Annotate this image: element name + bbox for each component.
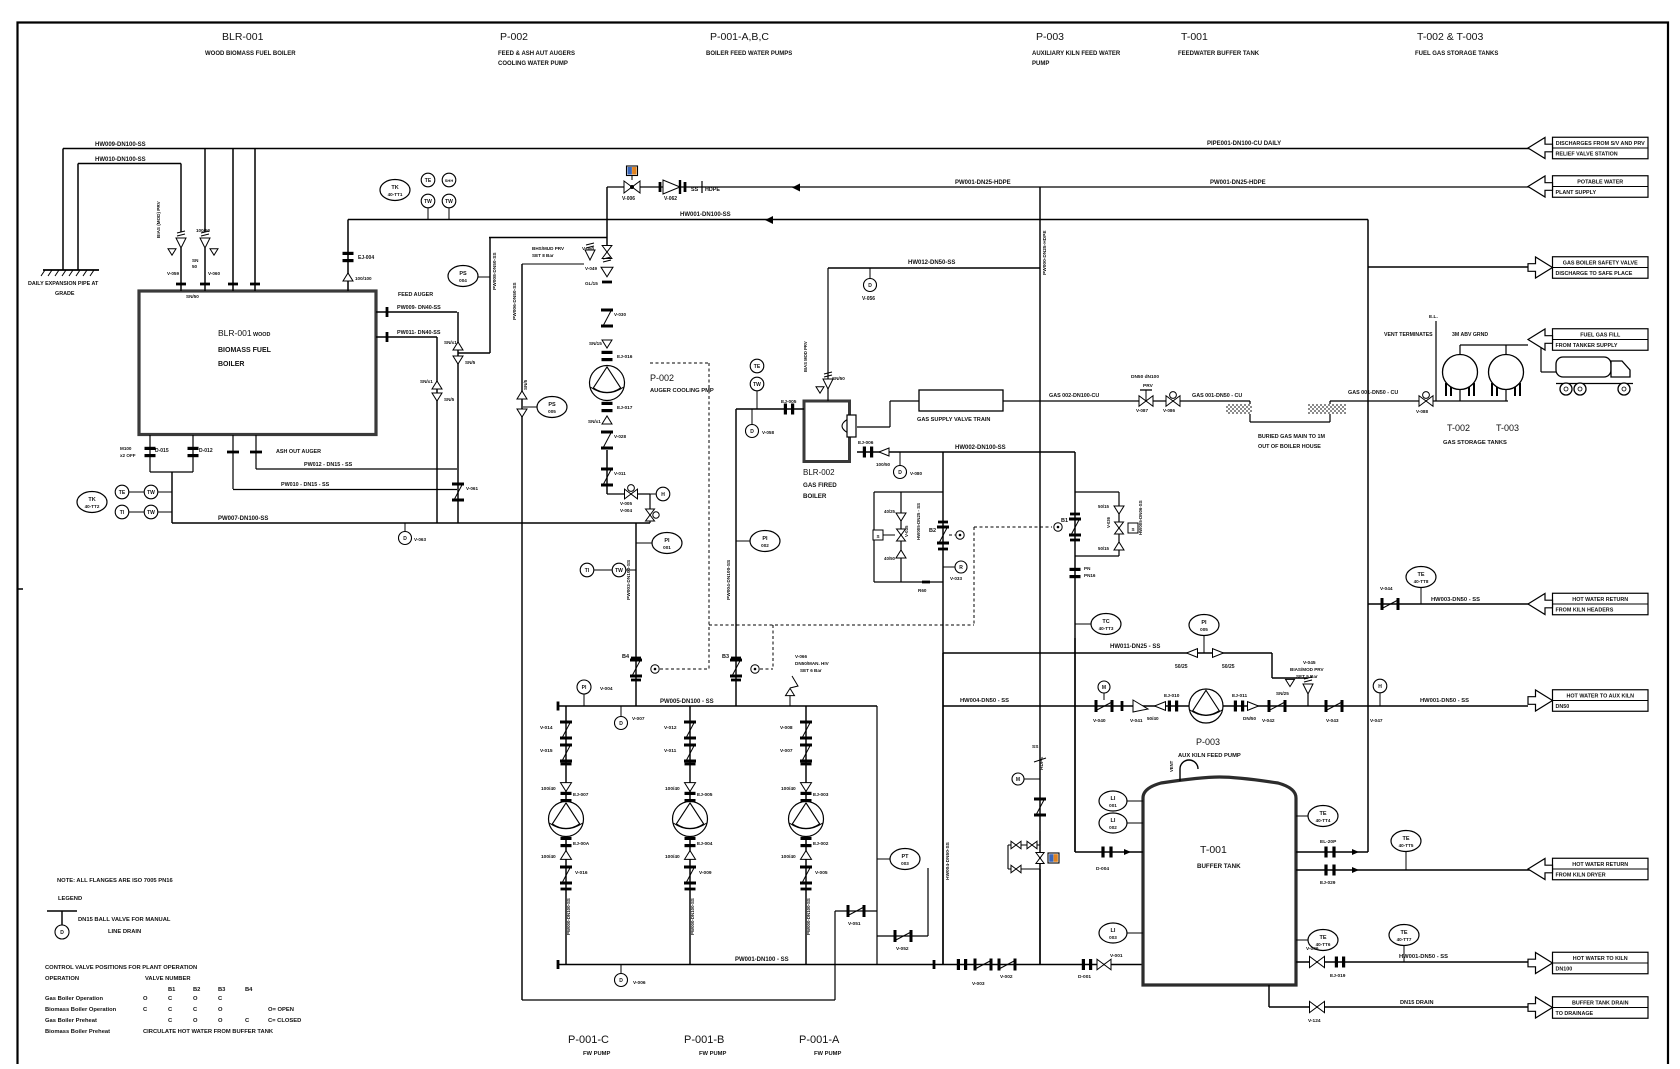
svg-text:BHS/MUD PRV: BHS/MUD PRV (532, 246, 565, 251)
svg-text:NOTE: ALL FLANGES ARE ISO 7005: NOTE: ALL FLANGES ARE ISO 7005 PN16 (57, 878, 174, 884)
svg-text:V-051: V-051 (848, 921, 861, 927)
svg-text:005: 005 (1200, 627, 1208, 632)
svg-text:V-058: V-058 (762, 430, 774, 435)
svg-text:PS: PS (459, 271, 467, 277)
svg-text:EJ-011: EJ-011 (1232, 693, 1248, 699)
svg-text:V-005: V-005 (620, 501, 632, 506)
instrument M V-040 (1098, 681, 1110, 693)
svg-text:003: 003 (901, 861, 909, 866)
wire tank outlets (1459, 390, 1461, 402)
valve V-044 (1381, 598, 1384, 610)
svg-text:001: 001 (1109, 803, 1117, 808)
svg-text:100/100: 100/100 (355, 276, 372, 281)
svg-text:HW005-DN25 - SS: HW005-DN25 - SS (916, 503, 921, 540)
svg-text:50/25: 50/25 (1222, 664, 1235, 670)
valve V-011 (601, 468, 613, 471)
svg-text:B4: B4 (622, 654, 630, 660)
svg-text:EJ-00A: EJ-00A (573, 841, 590, 847)
svg-text:AUGER COOLING PMP: AUGER COOLING PMP (650, 388, 714, 394)
svg-text:E.L.: E.L. (1429, 314, 1438, 320)
svg-text:O: O (218, 1018, 223, 1024)
svg-text:HW001-DN100-SS: HW001-DN100-SS (680, 212, 731, 218)
svg-text:V-006: V-006 (633, 980, 646, 986)
pipe PW001 HDPE drop (1039, 187, 1041, 964)
svg-text:POTABLE WATER: POTABLE WATER (1577, 180, 1623, 186)
interlock dot (651, 665, 659, 673)
svg-text:SET 8 Bar: SET 8 Bar (532, 253, 554, 258)
check valve V-062 (663, 180, 680, 194)
svg-text:OPERATION: OPERATION (45, 976, 79, 982)
valve V-042 (1268, 700, 1271, 712)
svg-text:FEED & ASH AUT AUGERS: FEED & ASH AUT AUGERS (498, 51, 575, 57)
svg-text:TE: TE (119, 490, 126, 496)
svg-text:40-TT3: 40-TT3 (1099, 626, 1114, 631)
svg-text:TW: TW (147, 510, 155, 516)
drain circle V-007 (620, 706, 622, 716)
instrument PS 005 (537, 397, 567, 418)
svg-text:P-001-C: P-001-C (568, 1034, 609, 1046)
svg-text:V-042: V-042 (1262, 718, 1275, 724)
instrument PI 001 (652, 533, 682, 554)
svg-text:D: D (619, 978, 623, 984)
svg-text:100/40: 100/40 (541, 786, 556, 792)
svg-text:V-086: V-086 (1163, 408, 1175, 413)
valve B5 on riser (452, 483, 464, 486)
svg-text:100/40: 100/40 (665, 786, 680, 792)
svg-text:100/50: 100/50 (876, 462, 890, 467)
svg-text:EJ-016: EJ-016 (617, 354, 633, 360)
reducers 50/25 (1187, 649, 1198, 658)
svg-text:SHH: SHH (445, 178, 454, 183)
svg-text:TE: TE (754, 364, 761, 370)
svg-text:TW: TW (753, 382, 761, 388)
burner flame (842, 419, 850, 433)
svg-text:V-035: V-035 (904, 525, 909, 537)
pump column P-001-A (805, 706, 807, 965)
flag hot water to kiln (1553, 952, 1649, 974)
svg-text:PW000-DN100-SS: PW000-DN100-SS (806, 898, 811, 935)
svg-text:FUEL GAS FILL: FUEL GAS FILL (1580, 333, 1621, 339)
left relief loop (942, 452, 944, 965)
valve V-050 (602, 246, 612, 259)
svg-text:V-061: V-061 (466, 486, 478, 491)
svg-text:TE: TE (1402, 836, 1409, 842)
svg-text:SN/5: SN/5 (444, 397, 455, 402)
pipe safety valve discharge left (828, 267, 1040, 269)
pipe PW007-DN100-SS boiler return (172, 522, 650, 524)
pipe PW001-DN25-HDPE potable water (607, 186, 1532, 188)
svg-text:BIOMASS FUEL: BIOMASS FUEL (218, 347, 272, 354)
svg-text:D-012: D-012 (199, 448, 213, 454)
svg-text:P-003: P-003 (1036, 31, 1064, 43)
valve B2 (938, 521, 948, 524)
svg-text:EJ-007: EJ-007 (573, 792, 589, 798)
svg-text:V-124: V-124 (1308, 1018, 1321, 1024)
svg-text:GAS SUPPLY VALVE TRAIN: GAS SUPPLY VALVE TRAIN (917, 417, 990, 423)
svg-text:HOT WATER RETURN: HOT WATER RETURN (1572, 862, 1628, 868)
svg-text:V-007: V-007 (780, 748, 793, 754)
svg-text:V-006: V-006 (622, 196, 635, 202)
svg-text:TE: TE (1319, 935, 1326, 941)
svg-text:V-052: V-052 (896, 946, 909, 952)
tee R60 (922, 581, 930, 584)
svg-text:GAS 002-DN100-CU: GAS 002-DN100-CU (1049, 393, 1099, 399)
pipe main feed to tank valves (933, 960, 936, 969)
svg-text:V-047: V-047 (1370, 718, 1383, 724)
control valve V-035 with solenoid (897, 529, 906, 541)
svg-text:BIAS MOD PRV: BIAS MOD PRV (803, 341, 808, 372)
valve B3 (731, 657, 741, 660)
pipe HW009-DN100-SS top header (63, 148, 1532, 150)
valve V-046 (1310, 956, 1325, 967)
svg-text:PW004-DN100-SS: PW004-DN100-SS (726, 559, 732, 600)
svg-text:BLR-001: BLR-001 (222, 31, 264, 43)
svg-text:DN15 BALL VALVE FOR MANUAL: DN15 BALL VALVE FOR MANUAL (78, 917, 171, 923)
valve V-005 (625, 489, 638, 499)
reducer SN15 (602, 340, 612, 348)
svg-text:DN50 dN100: DN50 dN100 (1131, 374, 1159, 380)
svg-text:SN/5: SN/5 (523, 379, 528, 390)
svg-text:R: R (959, 565, 963, 571)
svg-text:LI: LI (1111, 796, 1116, 802)
svg-text:D-001: D-001 (1078, 974, 1091, 980)
svg-text:BUFFER TANK DRAIN: BUFFER TANK DRAIN (1572, 1001, 1629, 1007)
svg-text:HW001-DN50 - SS: HW001-DN50 - SS (1420, 698, 1469, 704)
svg-text:LI: LI (1111, 928, 1116, 934)
svg-text:SN/x1: SN/x1 (444, 340, 457, 345)
svg-text:GAS 001-DN50 - CU: GAS 001-DN50 - CU (1192, 393, 1242, 399)
svg-text:HW009-DN100-SS: HW009-DN100-SS (95, 142, 146, 148)
tank T-001 (1143, 777, 1296, 985)
svg-text:M: M (1102, 685, 1106, 691)
svg-text:PI: PI (664, 538, 670, 544)
svg-text:PLANT SUPPLY: PLANT SUPPLY (1556, 190, 1597, 196)
svg-text:V-003: V-003 (972, 981, 985, 987)
wire PW006 drop line (522, 263, 584, 265)
svg-text:TI: TI (585, 568, 590, 574)
flag hot water to aux kiln (1553, 690, 1649, 712)
svg-text:HW010-DN100-SS: HW010-DN100-SS (95, 157, 146, 163)
svg-text:PW000-DN25-HDPE: PW000-DN25-HDPE (1042, 230, 1048, 275)
flag relief valve station (1553, 137, 1649, 159)
svg-text:SN/5: SN/5 (465, 360, 476, 365)
svg-text:V-009: V-009 (699, 870, 712, 876)
instrument TE 40-TT4 (1308, 806, 1338, 827)
pipe HW002 gas boiler outlet (857, 451, 1075, 453)
svg-text:VALVE NUMBER: VALVE NUMBER (145, 976, 191, 982)
svg-text:SN/x1: SN/x1 (588, 419, 601, 424)
svg-text:PW008-DN50-SS: PW008-DN50-SS (492, 252, 498, 290)
HDPE double bypass (1008, 844, 1040, 846)
svg-text:V-056: V-056 (862, 296, 875, 302)
flange PN16 (1070, 568, 1081, 571)
drain circle V-060 (899, 452, 901, 466)
svg-text:PW001-DN100 - SS: PW001-DN100 - SS (735, 957, 789, 963)
svg-text:FEED AUGER: FEED AUGER (398, 292, 433, 298)
svg-text:RELIEF VALVE STATION: RELIEF VALVE STATION (1556, 152, 1618, 158)
boiler BLR-002 (804, 401, 850, 462)
svg-text:TE: TE (425, 178, 432, 184)
ground grade symbol (43, 269, 99, 271)
svg-text:PT: PT (901, 854, 909, 860)
flag buffer tank drain (1553, 997, 1649, 1019)
svg-text:ASH OUT AUGER: ASH OUT AUGER (276, 449, 321, 455)
svg-text:D: D (750, 429, 754, 435)
pipe recirc line (521, 999, 523, 1001)
svg-text:100/40: 100/40 (541, 854, 556, 860)
svg-text:SN: SN (192, 258, 199, 263)
svg-text:TK: TK (88, 497, 95, 503)
svg-text:PUMP: PUMP (1032, 61, 1049, 67)
wire boiler top feed 1 (232, 149, 234, 292)
wire boiler steam outlet riser (347, 220, 349, 292)
svg-text:DN/50: DN/50 (1243, 716, 1256, 721)
bellows EJ-004 (343, 252, 354, 255)
flag hot water return dryer (1553, 858, 1649, 880)
svg-text:BOILER: BOILER (803, 493, 827, 500)
valve V-024 (1310, 1001, 1325, 1012)
instrument PS 004 (448, 266, 478, 287)
svg-text:PI: PI (1201, 620, 1207, 626)
svg-text:SN/25: SN/25 (1276, 691, 1289, 696)
pipe hot water to kiln (1296, 961, 1528, 963)
svg-text:V-040: V-040 (1093, 718, 1106, 724)
ash out auger nozzles (227, 451, 239, 454)
svg-text:TO DRAINAGE: TO DRAINAGE (1556, 1011, 1594, 1017)
svg-text:V-014: V-014 (540, 725, 553, 731)
valve V-086 (1166, 396, 1180, 407)
check valve V-041 (1133, 700, 1148, 712)
svg-text:TE: TE (1417, 572, 1424, 578)
instrument group TK 40-TT1 (380, 180, 410, 201)
svg-text:EJ-006: EJ-006 (858, 440, 874, 446)
svg-text:50/15: 50/15 (1098, 546, 1110, 551)
level instruments LI (1099, 791, 1127, 811)
wire truck fill (1540, 345, 1542, 372)
svg-text:P-001-A,B,C: P-001-A,B,C (710, 31, 769, 43)
pipe PW001-DN100-SS discharge header (558, 964, 1143, 966)
interlock dashed lines (708, 363, 710, 669)
instrument PI V-004 (577, 680, 591, 694)
svg-text:LEGEND: LEGEND (58, 896, 82, 902)
svg-text:GL/15: GL/15 (585, 281, 598, 286)
valve B4 (631, 657, 641, 660)
svg-text:DN100: DN100 (1556, 967, 1573, 973)
valve V-029 (601, 431, 613, 434)
svg-text:VENT TERMINATES: VENT TERMINATES (1384, 332, 1433, 338)
svg-text:EJ-003: EJ-003 (813, 792, 829, 798)
wire branch drop (489, 238, 491, 354)
pipe hot water return from kiln dryer (1296, 869, 1533, 871)
svg-text:O: O (218, 1007, 223, 1013)
svg-text:DISCHARGE TO SAFE PLACE: DISCHARGE TO SAFE PLACE (1556, 271, 1633, 277)
svg-text:SS: SS (691, 187, 699, 193)
pump P-002 (590, 366, 625, 401)
spring check V-049 (601, 267, 613, 277)
pipe PW008 link (458, 352, 490, 354)
svg-text:HW005-DN06-SS: HW005-DN06-SS (1138, 500, 1143, 535)
svg-text:BIAS/MOD PRV: BIAS/MOD PRV (1290, 667, 1325, 672)
svg-text:V-015: V-015 (540, 748, 553, 754)
svg-text:V-028: V-028 (614, 434, 626, 439)
svg-text:100/50: 100/50 (196, 228, 210, 233)
drain circle V-006b (620, 964, 622, 973)
wire feed auger riser B (436, 337, 438, 523)
svg-text:EJ-005: EJ-005 (781, 399, 797, 405)
svg-text:EJ-010: EJ-010 (1164, 693, 1180, 699)
svg-text:003: 003 (1109, 935, 1117, 940)
svg-text:C= CLOSED: C= CLOSED (268, 1018, 301, 1024)
svg-text:GAS 001-DN50 - CU: GAS 001-DN50 - CU (1348, 390, 1398, 396)
svg-text:V-046: V-046 (1306, 946, 1319, 952)
svg-text:DISCHARGES FROM S/V AND PRV: DISCHARGES FROM S/V AND PRV (1556, 141, 1645, 147)
svg-text:40/25: 40/25 (884, 509, 896, 514)
svg-text:V-036: V-036 (1106, 516, 1111, 528)
svg-text:OUT OF BOILER HOUSE: OUT OF BOILER HOUSE (1258, 444, 1321, 450)
svg-text:DAILY EXPANSION PIPE AT: DAILY EXPANSION PIPE AT (28, 281, 99, 287)
svg-text:EJ-002: EJ-002 (813, 841, 829, 847)
svg-text:V-087: V-087 (1136, 408, 1148, 413)
svg-text:V-004: V-004 (620, 508, 632, 513)
svg-text:B3: B3 (722, 654, 729, 660)
pipe V-005 branch (607, 493, 650, 495)
svg-text:GAS STORAGE TANKS: GAS STORAGE TANKS (1443, 440, 1507, 446)
svg-text:DN50: DN50 (1556, 704, 1570, 710)
svg-text:TW: TW (147, 490, 155, 496)
drain circle on PW007 (404, 523, 406, 531)
svg-text:VENT: VENT (1169, 760, 1174, 772)
svg-text:V-050: V-050 (582, 246, 594, 251)
svg-text:V-088: V-088 (1416, 409, 1428, 414)
buried gas main jog (1249, 401, 1251, 422)
svg-text:PIPE001-DN100-CU DAILY: PIPE001-DN100-CU DAILY (1207, 141, 1281, 147)
svg-text:PS: PS (548, 402, 556, 408)
actuator H circle (656, 487, 670, 501)
svg-text:B4: B4 (245, 987, 253, 993)
svg-text:BLR-002: BLR-002 (803, 468, 835, 477)
svg-text:D-015: D-015 (155, 448, 169, 454)
nozzle EL-20P return in (1296, 851, 1368, 853)
svg-text:M: M (1016, 777, 1020, 783)
svg-text:EJ-005: EJ-005 (697, 792, 713, 798)
tank T-002 (1443, 355, 1478, 390)
svg-text:T-001: T-001 (1200, 844, 1227, 856)
svg-text:H: H (1378, 684, 1382, 690)
svg-text:V-012: V-012 (664, 725, 677, 731)
wire feed auger riser A (457, 312, 459, 523)
svg-text:V-043: V-043 (1326, 718, 1339, 724)
svg-text:AUX KILN FEED PUMP: AUX KILN FEED PUMP (1178, 753, 1241, 759)
pipe gas boiler safety valve discharge (1368, 266, 1532, 268)
relief valve station above boiler (PRV pair) (180, 164, 182, 233)
svg-text:GAS FIRED: GAS FIRED (803, 482, 837, 489)
svg-text:V-007: V-007 (632, 716, 645, 722)
svg-text:V-011: V-011 (664, 748, 677, 754)
svg-text:V-002: V-002 (1000, 974, 1013, 980)
svg-text:BUFFER TANK: BUFFER TANK (1197, 863, 1241, 870)
svg-text:PW000-DN100-SS: PW000-DN100-SS (690, 898, 695, 935)
valve V-047 (1036, 853, 1044, 864)
svg-text:V-044: V-044 (1380, 586, 1393, 592)
svg-text:SN/50: SN/50 (186, 294, 199, 299)
wire kiln return riser (1367, 220, 1369, 853)
instrument TE 40-TT8 (1406, 567, 1436, 588)
svg-text:PRV: PRV (1143, 383, 1154, 389)
svg-text:BURIED GAS MAIN TO 1M: BURIED GAS MAIN TO 1M (1258, 434, 1325, 440)
right relief loop (1074, 452, 1076, 852)
svg-text:40-TT7: 40-TT7 (1397, 937, 1412, 942)
svg-text:002: 002 (761, 543, 769, 548)
svg-text:SN/50: SN/50 (832, 376, 845, 381)
svg-text:CONTROL VALVE POSITIONS FOR PL: CONTROL VALVE POSITIONS FOR PLANT OPERAT… (45, 965, 197, 971)
bellows EJ-016 (602, 351, 613, 354)
BLR-002 PRV vent (827, 268, 829, 401)
svg-text:T-002 & T-003: T-002 & T-003 (1417, 31, 1484, 43)
svg-text:HW002-DN100-SS: HW002-DN100-SS (955, 445, 1006, 451)
svg-text:SS: SS (1032, 744, 1039, 750)
svg-text:V-008: V-008 (780, 725, 793, 731)
pipe gas train to burner (890, 400, 919, 402)
flag potable water (1553, 176, 1649, 198)
svg-text:TI: TI (120, 510, 125, 516)
pipe aux feed HW004 (943, 705, 1528, 707)
svg-text:HOT WATER TO AUX KILN: HOT WATER TO AUX KILN (1566, 694, 1634, 700)
svg-text:PI: PI (762, 536, 768, 542)
svg-text:PW010 - DN15 - SS: PW010 - DN15 - SS (281, 482, 330, 488)
svg-text:PW007-DN100-SS: PW007-DN100-SS (218, 516, 268, 522)
svg-text:V-004: V-004 (600, 686, 613, 692)
svg-text:SN/15: SN/15 (589, 341, 602, 346)
svg-text:LINE DRAIN: LINE DRAIN (108, 929, 141, 935)
svg-text:TW: TW (445, 199, 453, 205)
pump P-003 (1189, 689, 1223, 723)
svg-text:100/40: 100/40 (781, 854, 796, 860)
pipe tank drain (1268, 985, 1270, 1007)
instrument H V-047 (1373, 679, 1387, 693)
instrument TI TW (580, 563, 594, 577)
svg-text:002: 002 (1109, 825, 1117, 830)
svg-text:T-001: T-001 (1181, 31, 1208, 43)
valve V-051 (835, 910, 877, 912)
svg-text:Biomass Boiler Operation: Biomass Boiler Operation (45, 1007, 117, 1013)
wire riser to potable line (606, 187, 608, 248)
svg-text:50/25: 50/25 (1175, 664, 1188, 670)
svg-text:HW011-DN25 - SS: HW011-DN25 - SS (1110, 644, 1160, 650)
svg-text:005: 005 (548, 409, 556, 414)
svg-text:FW PUMP: FW PUMP (583, 1051, 611, 1057)
svg-text:CIRCULATE HOT WATER FROM BUFFE: CIRCULATE HOT WATER FROM BUFFER TANK (143, 1029, 274, 1035)
svg-text:PW011- DN40-SS: PW011- DN40-SS (397, 330, 441, 336)
svg-text:FEEDWATER BUFFER TANK: FEEDWATER BUFFER TANK (1178, 51, 1260, 57)
svg-text:PW005-DN100 - SS: PW005-DN100 - SS (660, 699, 714, 705)
reducer (602, 416, 612, 424)
svg-text:EL-20P: EL-20P (1320, 839, 1337, 845)
wire PW004 riser BLR-002 feed (735, 409, 737, 706)
svg-text:EJ-029: EJ-029 (1320, 880, 1336, 886)
wire HW004 riser (942, 653, 944, 965)
svg-text:BIAS (MOD) PRV: BIAS (MOD) PRV (156, 200, 161, 238)
pipe HW001-DN100-SS boiler outlet header (348, 219, 1368, 221)
reducer 40/50 (1248, 702, 1259, 711)
svg-text:TK: TK (391, 185, 398, 191)
relief valve DN50 on branch (585, 250, 595, 260)
svg-text:FW PUMP: FW PUMP (699, 1051, 727, 1057)
svg-text:V-030: V-030 (614, 312, 626, 317)
svg-text:AUXILIARY KILN FEED WATER: AUXILIARY KILN FEED WATER (1032, 51, 1121, 57)
svg-text:P-001-B: P-001-B (684, 1034, 724, 1046)
pipe hot water return from kiln headers (1368, 603, 1532, 605)
svg-text:HW012-DN50-SS: HW012-DN50-SS (908, 260, 955, 266)
